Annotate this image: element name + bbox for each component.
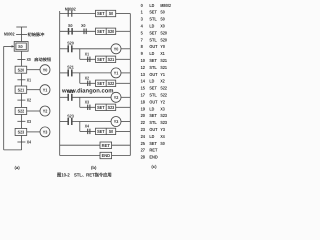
svg-text:17: 17 xyxy=(141,93,146,98)
IL line 7 STL S20 xyxy=(141,37,168,42)
output Y0 circle xyxy=(40,65,50,75)
contact X4 xyxy=(85,123,90,134)
svg-text:STL: STL xyxy=(149,65,157,70)
STL contact S21 xyxy=(67,65,74,77)
box END xyxy=(100,152,112,158)
svg-text:M8002: M8002 xyxy=(4,32,15,37)
wire STL S20 rung xyxy=(60,48,68,50)
svg-text:SET: SET xyxy=(149,58,157,63)
svg-text:Y1: Y1 xyxy=(43,87,48,92)
svg-text:X3: X3 xyxy=(85,99,90,104)
svg-text:Y0: Y0 xyxy=(114,46,119,51)
contact X2 xyxy=(85,75,90,86)
wire sub-rung X2 xyxy=(80,82,96,84)
IL line 28 END xyxy=(141,155,158,160)
svg-text:23: 23 xyxy=(141,127,146,132)
wire branch down S23 xyxy=(79,122,81,132)
svg-text:12: 12 xyxy=(141,65,146,70)
IL line 24 LD X4 xyxy=(141,134,166,139)
svg-text:S23: S23 xyxy=(67,113,74,118)
wire vertical start to S0 xyxy=(21,27,23,42)
wire branch down S21 xyxy=(79,73,81,83)
svg-text:19: 19 xyxy=(141,106,146,111)
IL line 23 OUT Y3 xyxy=(141,127,166,132)
svg-text:S23: S23 xyxy=(160,120,167,125)
step S22 box xyxy=(15,107,27,114)
svg-text:14: 14 xyxy=(141,79,146,84)
svg-text:24: 24 xyxy=(141,134,146,139)
wire below S21 xyxy=(21,93,23,107)
step S23 box xyxy=(15,128,27,135)
svg-text:Y0: Y0 xyxy=(43,67,48,72)
svg-text:SET: SET xyxy=(149,30,157,35)
wire S22 to Y2 xyxy=(27,110,40,112)
svg-text:SET: SET xyxy=(97,81,105,86)
wire loop left vertical xyxy=(3,46,5,149)
wire coil Y1 to right rail xyxy=(121,72,130,74)
IL line 0 LD M8002 xyxy=(141,3,172,8)
initial step S0 double box xyxy=(14,42,28,52)
output Y3 circle xyxy=(40,127,50,137)
wire loop entry arrow into S0 xyxy=(4,45,15,47)
svg-text:X0: X0 xyxy=(81,23,86,28)
wire rung2 xyxy=(60,30,96,32)
svg-text:SET: SET xyxy=(97,29,105,34)
svg-text:STL: STL xyxy=(149,120,157,125)
IL line 10 SET S21 xyxy=(141,58,168,63)
IL line 22 STL S23 xyxy=(141,120,168,125)
wire sub-rung X3 xyxy=(80,106,96,108)
svg-text:LD: LD xyxy=(149,106,154,111)
svg-text:22: 22 xyxy=(141,120,146,125)
coil Y2 xyxy=(111,92,121,102)
wire sub-rung X1 xyxy=(80,58,96,60)
coil Y1 xyxy=(111,68,121,78)
svg-text:X3: X3 xyxy=(27,119,32,124)
svg-text:S21: S21 xyxy=(18,87,25,92)
svg-text:S22: S22 xyxy=(160,86,167,91)
contact X3 xyxy=(85,99,90,110)
output Y1 circle xyxy=(40,85,50,95)
IL line 13 OUT Y1 xyxy=(141,72,166,77)
svg-text:18: 18 xyxy=(141,99,146,104)
svg-text:27: 27 xyxy=(141,148,146,153)
svg-text:STL: STL xyxy=(149,17,157,22)
wire below S20 xyxy=(21,73,23,86)
wire coil Y0 to right rail xyxy=(121,48,130,50)
svg-text:RET: RET xyxy=(102,143,111,148)
svg-text:20: 20 xyxy=(141,113,146,118)
svg-text:X2: X2 xyxy=(85,75,90,80)
svg-text:S20: S20 xyxy=(18,67,25,72)
contact X0 xyxy=(81,23,86,34)
svg-text:X2: X2 xyxy=(160,79,165,84)
svg-text:END: END xyxy=(102,153,110,158)
svg-text:15: 15 xyxy=(141,86,146,91)
IL line 27 RET xyxy=(141,148,158,153)
svg-text:X1: X1 xyxy=(27,77,32,82)
wire SFC start bar xyxy=(16,26,27,28)
box SET S22 xyxy=(96,80,116,86)
svg-text:SET: SET xyxy=(97,105,105,110)
svg-text:OUT: OUT xyxy=(149,99,157,104)
ladder right power rail xyxy=(129,14,131,156)
STL contact S23 xyxy=(67,113,74,125)
ladder left power rail xyxy=(59,11,61,156)
svg-text:S21: S21 xyxy=(160,65,167,70)
svg-text:S0: S0 xyxy=(18,44,23,49)
svg-text:X1: X1 xyxy=(85,51,90,56)
svg-text:STL: STL xyxy=(149,37,157,42)
svg-text:Y2: Y2 xyxy=(160,99,165,104)
svg-text:X2: X2 xyxy=(27,98,32,103)
transition X0 tick xyxy=(17,58,25,60)
svg-text:X3: X3 xyxy=(160,106,165,111)
wire coil Y3 to right rail xyxy=(121,121,130,123)
wire S23 to Y3 xyxy=(27,131,40,133)
svg-text:S22: S22 xyxy=(18,109,25,114)
contact M8002 xyxy=(65,7,76,17)
svg-text:STL: STL xyxy=(149,93,157,98)
STL contact S20 xyxy=(67,41,74,53)
svg-text:LD: LD xyxy=(149,51,154,56)
wire branch down S22 xyxy=(79,97,81,107)
svg-text:S23: S23 xyxy=(160,113,167,118)
svg-text:SET: SET xyxy=(149,86,157,91)
svg-text:S20: S20 xyxy=(160,30,167,35)
svg-text:Y1: Y1 xyxy=(160,72,165,77)
svg-text:S23: S23 xyxy=(108,105,115,110)
svg-text:Y3: Y3 xyxy=(114,119,119,124)
svg-text:LD: LD xyxy=(149,79,154,84)
step S21 box xyxy=(15,86,27,93)
box SET S0 rung1 xyxy=(96,10,116,16)
IL line 1 SET S0 xyxy=(141,10,166,15)
IL line 20 SET S23 xyxy=(141,113,168,118)
svg-text:LD: LD xyxy=(149,134,154,139)
wire STL S21 rung xyxy=(60,72,68,74)
IL line 17 STL S22 xyxy=(141,93,168,98)
svg-text:SET: SET xyxy=(149,10,157,15)
IL line 15 SET S22 xyxy=(141,86,168,91)
box SET S0 xyxy=(96,128,116,134)
wire coil Y2 to right rail xyxy=(121,96,130,98)
transition X4 tick xyxy=(17,141,25,143)
STL contact S0 xyxy=(68,23,73,34)
svg-text:(b): (b) xyxy=(91,165,97,170)
svg-text:S0: S0 xyxy=(160,10,165,15)
svg-text:S0: S0 xyxy=(68,23,73,28)
STL contact S22 xyxy=(67,89,74,101)
wire loop bottom xyxy=(4,149,22,151)
svg-text:初始脉冲: 初始脉冲 xyxy=(26,32,44,37)
svg-text:10: 10 xyxy=(141,58,146,63)
wire rung1 xyxy=(60,13,96,15)
box RET xyxy=(100,142,112,148)
svg-text:SET: SET xyxy=(149,113,157,118)
svg-text:X0: X0 xyxy=(27,57,32,62)
svg-text:S0: S0 xyxy=(160,141,165,146)
svg-text:13: 13 xyxy=(141,72,146,77)
box SET S21 xyxy=(96,56,116,62)
svg-text:www.diangon.com: www.diangon.com xyxy=(61,87,113,94)
svg-text:28: 28 xyxy=(141,155,146,160)
coil Y0 xyxy=(111,44,121,54)
IL line 5 SET S20 xyxy=(141,30,168,35)
transition X3 tick xyxy=(17,120,25,122)
wire branch down S20 xyxy=(79,49,81,60)
svg-text:S22: S22 xyxy=(160,93,167,98)
svg-text:S20: S20 xyxy=(108,29,115,34)
svg-text:X4: X4 xyxy=(85,123,90,128)
svg-text:S21: S21 xyxy=(67,65,74,70)
svg-text:Y3: Y3 xyxy=(43,130,48,135)
svg-text:X4: X4 xyxy=(27,140,32,145)
svg-text:S0: S0 xyxy=(109,11,114,16)
wire STL S22 rung xyxy=(60,96,68,98)
wire below S23 xyxy=(21,136,23,150)
wire below S22 xyxy=(21,115,23,129)
svg-text:S21: S21 xyxy=(160,58,167,63)
svg-text:END: END xyxy=(149,155,157,160)
transition X1 tick xyxy=(17,79,25,81)
svg-text:S0: S0 xyxy=(160,17,165,22)
wire S0 to S20 xyxy=(21,51,23,66)
svg-text:S20: S20 xyxy=(160,37,167,42)
transition X2 tick xyxy=(17,99,25,101)
IL line 18 OUT Y2 xyxy=(141,99,166,104)
svg-text:X1: X1 xyxy=(160,51,165,56)
svg-text:25: 25 xyxy=(141,141,146,146)
wire STL S23 rung xyxy=(60,121,68,123)
svg-text:Y0: Y0 xyxy=(160,44,165,49)
svg-text:X0: X0 xyxy=(160,24,165,29)
svg-text:SET: SET xyxy=(97,57,105,62)
svg-text:RET: RET xyxy=(149,148,157,153)
svg-text:OUT: OUT xyxy=(149,72,157,77)
svg-text:SET: SET xyxy=(97,129,105,134)
svg-text:Y1: Y1 xyxy=(114,71,119,76)
IL line 25 SET S0 xyxy=(141,141,166,146)
IL line 8 OUT Y0 xyxy=(141,44,166,49)
transition M8002 tick xyxy=(16,34,27,36)
svg-text:LD: LD xyxy=(149,3,154,8)
IL line 4 LD X0 xyxy=(141,24,166,29)
wire sub-rung X4 xyxy=(80,130,96,132)
svg-text:(c): (c) xyxy=(151,164,157,169)
svg-text:(a): (a) xyxy=(14,165,20,170)
svg-text:启动按钮: 启动按钮 xyxy=(34,57,52,62)
wire RET rung xyxy=(60,144,100,146)
IL line 14 LD X2 xyxy=(141,79,166,84)
output Y2 circle xyxy=(40,106,50,116)
svg-text:LD: LD xyxy=(149,24,154,29)
svg-text:S23: S23 xyxy=(18,130,25,135)
svg-text:SET: SET xyxy=(149,141,157,146)
svg-text:图10-2 STL、RET指令应用: 图10-2 STL、RET指令应用 xyxy=(57,171,112,177)
svg-text:S21: S21 xyxy=(108,57,115,62)
svg-text:M8002: M8002 xyxy=(65,7,76,12)
svg-text:SET: SET xyxy=(97,11,105,16)
coil Y3 xyxy=(111,117,121,127)
svg-text:Y2: Y2 xyxy=(43,109,48,114)
svg-text:S0: S0 xyxy=(109,129,114,134)
wire S21 to Y1 xyxy=(27,89,40,91)
svg-text:M8002: M8002 xyxy=(160,3,171,8)
svg-text:X4: X4 xyxy=(160,134,165,139)
step S20 box xyxy=(15,66,27,73)
svg-text:S22: S22 xyxy=(108,81,115,86)
IL line 3 STL S0 xyxy=(141,17,166,22)
box SET S23 xyxy=(96,104,116,110)
contact X1 xyxy=(85,51,90,62)
wire S20 to Y0 xyxy=(27,69,40,71)
svg-text:S20: S20 xyxy=(67,41,74,46)
svg-text:OUT: OUT xyxy=(149,127,157,132)
wire END rung xyxy=(60,155,100,157)
IL line 12 STL S21 xyxy=(141,65,168,70)
box SET S20 rung2 xyxy=(96,28,116,34)
IL line 19 LD X3 xyxy=(141,106,166,111)
svg-text:OUT: OUT xyxy=(149,44,157,49)
IL line 9 LD X1 xyxy=(141,51,166,56)
svg-text:Y2: Y2 xyxy=(114,95,119,100)
svg-text:Y3: Y3 xyxy=(160,127,165,132)
